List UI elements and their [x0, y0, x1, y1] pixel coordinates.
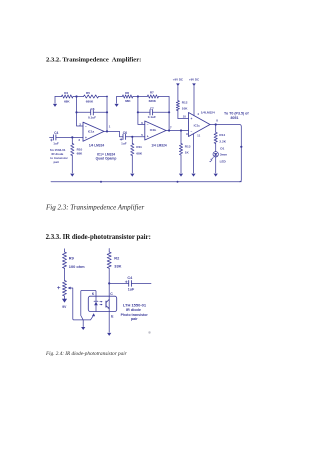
svg-text:100 ohm: 100 ohm [69, 264, 85, 269]
svg-text:R2: R2 [114, 256, 120, 261]
wire output net to 8051 [210, 125, 241, 182]
wire feedback right column stage2 [168, 97, 170, 131]
ground emitter [107, 333, 111, 336]
svg-text:3mm: 3mm [220, 153, 227, 157]
capacitor C4 output [125, 276, 135, 292]
ground R10 [70, 174, 74, 177]
svg-text:680K: 680K [86, 99, 94, 103]
node C6 right junction [131, 136, 133, 138]
light arrows [100, 302, 102, 305]
resistor R4 [62, 91, 74, 103]
svg-text:Fig. 2.4: IR diode-phototransi: Fig. 2.4: IR diode-phototransistor pair [45, 350, 128, 357]
svg-text:R9: R9 [69, 256, 75, 261]
node output stage2 feedback [168, 129, 170, 131]
wire collector column [108, 283, 110, 332]
node rail left [100, 181, 102, 183]
svg-text:+: + [85, 136, 87, 140]
svg-text:−: − [191, 130, 193, 134]
svg-text:R11: R11 [136, 145, 142, 149]
svg-text:IC1c: IC1c [194, 123, 201, 127]
capacitor C7 [138, 107, 169, 119]
svg-text:1uF: 1uF [53, 141, 59, 145]
wire stage2 output [166, 130, 189, 132]
svg-text:IR diode: IR diode [126, 308, 141, 312]
capacitor C5 [77, 107, 108, 119]
node input junction [71, 136, 73, 138]
svg-text:10: 10 [183, 115, 187, 119]
LED D1 [210, 147, 228, 164]
wire cathode net [81, 290, 96, 326]
label plus terminal [57, 286, 60, 289]
svg-text:1/4LM324: 1/4LM324 [201, 110, 215, 114]
svg-text:R4: R4 [64, 91, 68, 95]
ground R4 left [54, 97, 56, 104]
resistor R2 [107, 249, 121, 284]
wire feedback left column stage1 [77, 97, 84, 127]
stray mark [148, 331, 150, 333]
resistor R11 [131, 137, 143, 173]
wire anode return net [70, 288, 93, 320]
resistor R12 [176, 86, 188, 118]
svg-text:C4: C4 [54, 131, 58, 135]
wire input net stage1 [50, 136, 84, 138]
svg-text:R13: R13 [185, 144, 191, 148]
op-amp U3 IC1c [189, 113, 211, 137]
node collector junction [108, 282, 110, 284]
wire +9V to pin4 [193, 86, 195, 115]
node feedback junction stage2 [137, 95, 139, 97]
ground R11 [130, 174, 134, 177]
node C5 right [106, 111, 108, 113]
capacitor C4 [50, 131, 59, 145]
wire R12 to pin10 [178, 118, 189, 120]
svg-text:LTH 1550-01: LTH 1550-01 [123, 302, 147, 307]
svg-text:pair: pair [131, 317, 138, 321]
svg-text:2.3.3. IR diode-phototransisto: 2.3.3. IR diode-phototransistor pair: [46, 234, 151, 241]
resistor R10 [71, 137, 83, 173]
svg-text:To T0 (P3.5) of: To T0 (P3.5) of [224, 111, 249, 115]
wire feedback left column stage2 [138, 97, 145, 125]
svg-text:68K: 68K [125, 99, 131, 103]
ground cathode [81, 327, 85, 330]
svg-text:−: − [147, 123, 149, 127]
node R13 top [180, 129, 182, 131]
wire ground rail [51, 181, 241, 183]
resistor R9 lower element [62, 281, 67, 309]
svg-text:IC1a: IC1a [88, 129, 95, 133]
arrow to R9 [68, 287, 71, 290]
svg-text:11: 11 [197, 133, 200, 137]
svg-text:R14: R14 [219, 133, 225, 137]
wire R6 feedback left [117, 96, 138, 98]
node C5 left [75, 111, 77, 113]
svg-text:LED: LED [220, 159, 227, 163]
ground pin11 [191, 174, 195, 177]
node on output drop [240, 146, 242, 148]
wire R4 feedback left [55, 96, 77, 98]
svg-text:Quad Opamp: Quad Opamp [96, 157, 117, 161]
svg-text:33K: 33K [114, 264, 121, 269]
svg-text:R7: R7 [150, 91, 154, 95]
svg-text:68K: 68K [136, 151, 142, 155]
svg-text:Fig 2.3: Transimpedence Amplif: Fig 2.3: Transimpedence Amplifier [45, 204, 145, 212]
node output stage1 [106, 130, 108, 132]
svg-text:0.1uF: 0.1uF [148, 115, 156, 119]
svg-text:R5: R5 [86, 91, 90, 95]
svg-text:1/4 LM324: 1/4 LM324 [89, 144, 104, 148]
svg-text:pair: pair [54, 160, 60, 164]
power +9V DC right [189, 78, 200, 87]
svg-text:R6: R6 [125, 91, 129, 95]
node C7 left [137, 111, 139, 113]
svg-text:8051: 8051 [231, 116, 239, 120]
svg-text:R12: R12 [182, 101, 188, 105]
wire pin11 to ground [193, 134, 195, 173]
node rail right [177, 181, 179, 183]
package box LTH1550 [88, 296, 116, 311]
svg-text:2.2K: 2.2K [219, 140, 226, 144]
power +9V DC left [173, 78, 184, 87]
svg-text:+: + [147, 135, 149, 139]
ground R13 [179, 174, 183, 177]
ground R6 left [116, 97, 118, 104]
svg-text:1/4 LM324: 1/4 LM324 [151, 144, 166, 148]
wire stage1 output to C6 [104, 131, 145, 136]
op-amp U2 IC1b [145, 121, 166, 140]
resistor R7 [138, 91, 169, 103]
node R5 right corner [106, 96, 108, 98]
svg-text:+9V DC: +9V DC [173, 78, 184, 82]
node feedback junction stage1 [75, 95, 77, 97]
svg-text:D1: D1 [220, 147, 224, 151]
node output IC1c [215, 123, 217, 125]
resistor R14 [214, 125, 227, 152]
svg-text:IC1b: IC1b [150, 128, 157, 132]
ground LED [214, 174, 218, 177]
wire LED to ground [215, 157, 217, 173]
wire C4 output net [109, 282, 151, 284]
op-amp U1 IC1a [83, 122, 104, 141]
IR LED inside box [94, 296, 98, 311]
svg-text:2.3.2. Transimpedence Amplifi: 2.3.2. Transimpedence Amplifier: [46, 56, 141, 63]
node C7 right [168, 111, 170, 113]
arrow to anode [92, 313, 95, 316]
svg-text:−: − [85, 124, 87, 128]
svg-text:C6: C6 [123, 131, 127, 135]
svg-text:+: + [191, 117, 193, 121]
svg-text:C5: C5 [91, 107, 95, 111]
svg-text:680K: 680K [149, 99, 157, 103]
phototransistor Q1 [106, 299, 110, 309]
resistor R6 [122, 91, 133, 103]
resistor R13 [179, 131, 190, 173]
wire feedback right column stage1 [106, 97, 108, 132]
svg-text:+9V DC: +9V DC [189, 78, 200, 82]
svg-text:68K: 68K [77, 152, 83, 156]
svg-text:0.1uF: 0.1uF [88, 115, 96, 119]
resistor R5 [77, 91, 108, 103]
svg-text:1uF: 1uF [128, 288, 135, 292]
svg-text:1uF: 1uF [121, 142, 127, 146]
svg-text:10K: 10K [182, 107, 188, 111]
svg-text:68K: 68K [64, 99, 70, 103]
capacitor C6 [120, 131, 127, 146]
svg-text:C7: C7 [150, 107, 154, 111]
resistor R9 [63, 249, 86, 281]
